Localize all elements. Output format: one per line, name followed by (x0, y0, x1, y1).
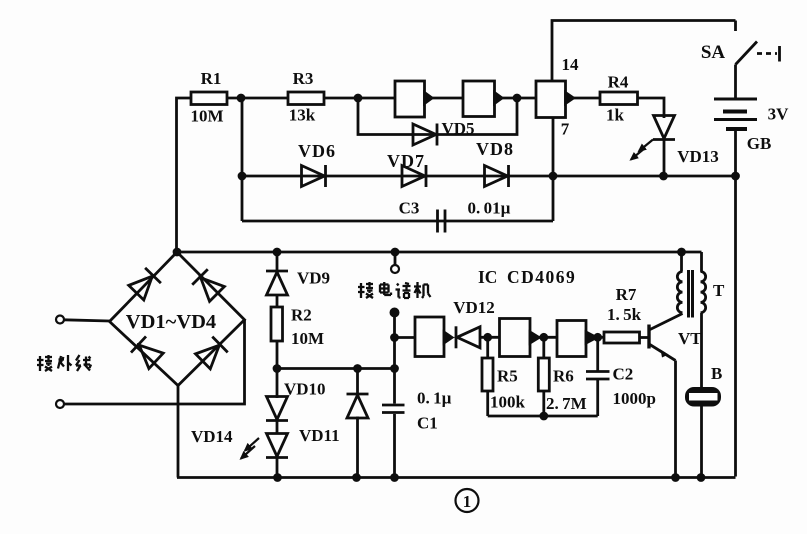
diode VD6 (302, 165, 326, 187)
svg-text:VD9: VD9 (297, 269, 330, 288)
svg-text:VT: VT (678, 329, 702, 348)
svg-text:VD1~VD4: VD1~VD4 (126, 311, 216, 333)
transformer T (680, 252, 683, 272)
diode VD11 (with VD14 arrows) (276, 421, 279, 435)
switch SA (734, 21, 737, 32)
svg-text:VD12: VD12 (453, 298, 495, 317)
svg-text:GB: GB (747, 134, 772, 153)
wire: diode row rail (242, 175, 736, 178)
diode VD8 (485, 165, 509, 187)
resistor R6 (542, 337, 545, 358)
wire: bridge bottom corner down to bottom rail (177, 386, 180, 478)
node: mid diode top (355, 366, 361, 372)
bridge rectifier VD1~VD4 (110, 252, 245, 386)
svg-text:VD8: VD8 (476, 139, 514, 159)
wire: middle rail (177, 251, 702, 254)
svg-text:VD7: VD7 (387, 151, 425, 171)
svg-text:1k: 1k (606, 106, 625, 125)
wire: R1 right to R3 left (227, 97, 288, 100)
svg-text:0. 1µ: 0. 1µ (417, 389, 452, 408)
wire: gate3 out to R4 (574, 97, 601, 100)
node: gate6 output (595, 334, 601, 340)
resistor R3 (288, 92, 324, 105)
svg-text:R2: R2 (291, 306, 312, 325)
svg-text:VD14: VD14 (191, 427, 233, 446)
node: VD11 bottom on rail (275, 475, 281, 481)
node: VD13 bottom (661, 173, 667, 179)
svg-text:SA: SA (701, 42, 726, 63)
wire: RC network bottom link (488, 415, 598, 418)
svg-text:14: 14 (562, 55, 580, 74)
capacitor C3 (436, 210, 439, 233)
wire: bottom rail (177, 476, 736, 479)
wire: pin 14 vertical and top rail (552, 21, 736, 82)
svg-text:2. 7M: 2. 7M (546, 394, 587, 413)
wire: R3 right to gate 1 input (324, 97, 395, 100)
svg-text:C2: C2 (613, 365, 634, 384)
terminal: outside line top (56, 316, 64, 324)
svg-text:3V: 3V (768, 105, 790, 124)
node: R2 bottom junction (274, 366, 280, 372)
diode VD9 (276, 252, 279, 270)
svg-text:R6: R6 (553, 367, 574, 386)
resistor R7 (604, 332, 640, 343)
svg-text:VD6: VD6 (298, 141, 336, 161)
diode VD10 (276, 369, 279, 399)
svg-text:100k: 100k (490, 393, 526, 412)
svg-text:C1: C1 (417, 414, 438, 433)
svg-text:R4: R4 (608, 73, 629, 92)
wire: VD5 feedback branch (358, 98, 517, 135)
node: transformer left top (679, 249, 685, 255)
resistor R4 (600, 92, 638, 105)
battery GB 3V (714, 98, 757, 101)
capacitor C2 (596, 337, 599, 370)
svg-text:13k: 13k (289, 106, 316, 125)
diode VD7 (402, 165, 426, 187)
wire: left vertical junction column down to C3 row (241, 98, 244, 221)
capacitor C1 (382, 404, 405, 407)
svg-text:10M: 10M (291, 329, 324, 348)
node: C1 column (392, 366, 398, 372)
wire: rail under R2 (277, 367, 395, 370)
diode VD13 (LED) (653, 116, 675, 140)
op-amp U1B inverter gate box 2 (463, 81, 495, 117)
svg-text:0. 01µ: 0. 01µ (468, 199, 511, 218)
wire: VD13 to lower rail (663, 140, 666, 177)
wire: C3 row (242, 220, 553, 223)
label 接外线 (hand-drawn glyphs) (37, 355, 91, 371)
transistor VT (647, 325, 650, 349)
wire: left vertical from R1 down to bridge top corner (177, 98, 192, 252)
wire: battery bottom to rail and right edge down (734, 131, 737, 477)
node: after VD12 (485, 334, 491, 340)
svg-text:R7: R7 (616, 285, 637, 304)
diode unlabeled beside C1 (356, 369, 359, 394)
svg-text:VD11: VD11 (299, 426, 340, 445)
svg-text:10M: 10M (190, 107, 223, 126)
label 接电话机 (hand-drawn glyphs) (358, 282, 431, 298)
resistor R2 (276, 294, 279, 307)
svg-text:1: 1 (463, 492, 472, 511)
node: gate4 input branch (392, 335, 398, 341)
terminal: telephone stub circle (394, 252, 397, 265)
diode VD12 (456, 326, 480, 348)
node: diode row left (239, 173, 245, 179)
svg-text:C3: C3 (399, 199, 420, 218)
svg-text:CD4069: CD4069 (507, 267, 576, 287)
node: bridge top corner (174, 249, 180, 255)
svg-text:R5: R5 (497, 367, 518, 386)
svg-text:B: B (711, 364, 722, 383)
op-amp U1A inverter gate box 1 (395, 81, 425, 117)
buzzer B (685, 387, 721, 407)
svg-text:T: T (713, 281, 725, 300)
svg-text:VD13: VD13 (677, 147, 719, 166)
wire: phone column (391, 309, 398, 316)
wire: gate2 out to gate3 in (502, 97, 536, 100)
wire: gate1 out to gate2 in (432, 97, 463, 100)
svg-text:R1: R1 (201, 69, 222, 88)
svg-text:R3: R3 (293, 69, 314, 88)
op-amp U1C inverter gate box 3 (536, 81, 566, 118)
svg-text:VD5: VD5 (441, 119, 474, 138)
node: VD9 top (274, 249, 280, 255)
svg-text:7: 7 (561, 120, 570, 139)
wire: pin 7 vertical down to C3 row (552, 118, 555, 222)
resistor R1 (191, 92, 227, 105)
node: junction VD5 feedback right (514, 95, 520, 101)
node: junction after R1 (238, 95, 244, 101)
node: R6 bottom (541, 413, 547, 419)
node: phone stub (392, 249, 398, 255)
node: battery column (733, 173, 739, 179)
node: between gate5 and gate6 (541, 334, 547, 340)
terminal: outside line bottom (56, 400, 64, 408)
svg-text:VD10: VD10 (284, 380, 326, 399)
op-amp U2B inverter gate box 5 (500, 319, 531, 357)
node: junction after R3 (355, 95, 361, 101)
svg-text:1000p: 1000p (613, 389, 656, 408)
svg-text:1. 5k: 1. 5k (607, 305, 642, 324)
diode VD5 (413, 124, 437, 146)
resistor R5 (486, 337, 489, 358)
wire: R4 right, corner down to VD13 (638, 98, 665, 118)
op-amp U2C inverter gate box 6 (557, 321, 586, 357)
svg-text:IC: IC (478, 267, 497, 287)
node: diode row right at pin7 (550, 173, 556, 179)
figure number circled 1 (456, 489, 479, 512)
op-amp U2A inverter gate box 4 (415, 317, 444, 357)
